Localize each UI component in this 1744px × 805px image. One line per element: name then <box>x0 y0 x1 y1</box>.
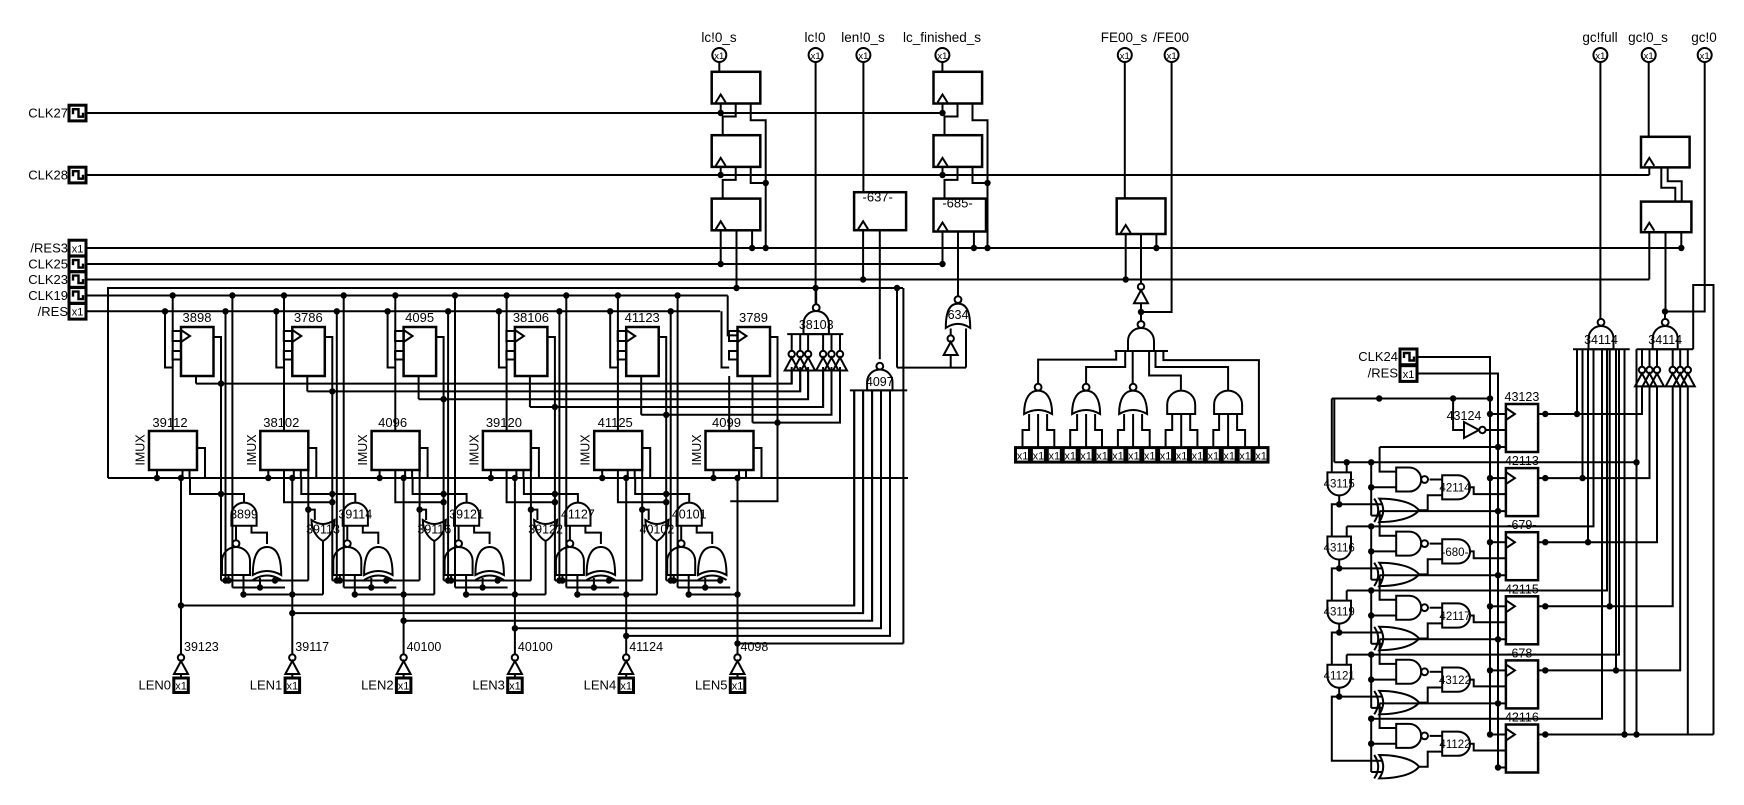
svg-text:3789: 3789 <box>739 310 768 325</box>
svg-text:40100: 40100 <box>518 640 553 654</box>
svg-text:39120: 39120 <box>486 415 522 430</box>
svg-text:4098: 4098 <box>741 640 769 654</box>
svg-text:x1: x1 <box>509 681 521 693</box>
svg-text:x1: x1 <box>1017 450 1029 462</box>
svg-text:43122: 43122 <box>1439 675 1471 687</box>
svg-text:41123: 41123 <box>625 310 660 325</box>
svg-text:gc!0: gc!0 <box>1691 30 1717 45</box>
svg-text:CLK28: CLK28 <box>28 168 68 183</box>
svg-text:/FE00: /FE00 <box>1153 30 1189 45</box>
svg-text:39123: 39123 <box>184 640 219 654</box>
svg-text:x1: x1 <box>1033 450 1045 462</box>
svg-text:IMUX: IMUX <box>134 434 148 466</box>
svg-text:gc!full: gc!full <box>1582 30 1617 45</box>
svg-text:3786: 3786 <box>294 310 323 325</box>
svg-text:41121: 41121 <box>1324 671 1355 683</box>
svg-text:40100: 40100 <box>407 640 442 654</box>
svg-text:38102: 38102 <box>263 415 299 430</box>
svg-text:x1: x1 <box>1167 51 1177 62</box>
svg-text:IMUX: IMUX <box>467 434 481 466</box>
svg-text:LEN3: LEN3 <box>472 678 505 693</box>
svg-text:39122: 39122 <box>528 523 563 537</box>
svg-text:/RES: /RES <box>38 304 69 319</box>
svg-text:34114: 34114 <box>1584 333 1618 347</box>
svg-text:634: 634 <box>948 308 969 322</box>
svg-text:39112: 39112 <box>152 415 187 430</box>
svg-text:-685-: -685- <box>942 196 972 211</box>
svg-text:LEN2: LEN2 <box>361 678 394 693</box>
svg-text:IMUX: IMUX <box>245 434 259 466</box>
svg-text:43116: 43116 <box>1324 543 1355 555</box>
svg-text:x1: x1 <box>72 243 84 255</box>
svg-text:42114: 42114 <box>1439 483 1471 495</box>
svg-text:CLK27: CLK27 <box>28 106 68 121</box>
svg-text:x1: x1 <box>1176 450 1188 462</box>
svg-text:IMUX: IMUX <box>690 434 704 466</box>
svg-text:39114: 39114 <box>338 508 372 522</box>
svg-text:-678-: -678- <box>1507 646 1536 660</box>
svg-text:x1: x1 <box>286 681 298 693</box>
svg-text:x1: x1 <box>620 681 632 693</box>
svg-text:42117: 42117 <box>1439 611 1470 623</box>
svg-text:43115: 43115 <box>1324 478 1355 490</box>
svg-text:x1: x1 <box>175 681 187 693</box>
svg-text:3899: 3899 <box>230 508 258 522</box>
svg-text:CLK19: CLK19 <box>28 288 68 303</box>
svg-text:x1: x1 <box>714 51 724 62</box>
svg-text:38106: 38106 <box>513 310 549 325</box>
svg-text:IMUX: IMUX <box>579 434 593 466</box>
svg-text:40101: 40101 <box>672 508 707 522</box>
svg-text:lc!0_s: lc!0_s <box>701 30 737 45</box>
svg-text:x1: x1 <box>1048 450 1060 462</box>
svg-text:3898: 3898 <box>183 310 212 325</box>
svg-text:4099: 4099 <box>712 415 741 430</box>
svg-text:x1: x1 <box>1207 450 1219 462</box>
svg-text:x1: x1 <box>1064 450 1076 462</box>
svg-text:41124: 41124 <box>629 640 663 654</box>
svg-text:x1: x1 <box>1403 369 1415 381</box>
svg-text:42115: 42115 <box>1505 582 1539 596</box>
svg-text:x1: x1 <box>1144 450 1156 462</box>
svg-text:x1: x1 <box>1128 450 1140 462</box>
svg-text:IMUX: IMUX <box>356 434 370 466</box>
svg-text:41122: 41122 <box>1439 739 1470 751</box>
svg-text:41125: 41125 <box>598 415 633 430</box>
svg-text:42116: 42116 <box>1505 711 1539 725</box>
svg-text:x1: x1 <box>1080 450 1092 462</box>
svg-text:x1: x1 <box>1644 51 1654 62</box>
svg-text:4096: 4096 <box>378 415 407 430</box>
svg-text:/RES3: /RES3 <box>30 241 68 256</box>
svg-text:LEN1: LEN1 <box>250 678 283 693</box>
svg-text:len!0_s: len!0_s <box>841 30 885 45</box>
svg-text:41127: 41127 <box>561 508 595 522</box>
svg-text:LEN4: LEN4 <box>584 678 617 693</box>
svg-text:39121: 39121 <box>449 508 484 522</box>
svg-text:x1: x1 <box>1595 51 1605 62</box>
svg-text:lc_finished_s: lc_finished_s <box>903 30 981 45</box>
svg-text:x1: x1 <box>858 51 868 62</box>
svg-text:38103: 38103 <box>799 318 834 332</box>
svg-text:39116: 39116 <box>417 523 451 537</box>
svg-text:39113: 39113 <box>306 523 340 537</box>
svg-text:CLK24: CLK24 <box>1358 349 1398 364</box>
svg-text:gc!0_s: gc!0_s <box>1628 30 1668 45</box>
svg-text:CLK25: CLK25 <box>28 257 68 272</box>
svg-text:39117: 39117 <box>295 640 329 654</box>
svg-text:-679-: -679- <box>1507 518 1536 532</box>
svg-text:x1: x1 <box>1120 51 1130 62</box>
svg-text:x1: x1 <box>811 51 821 62</box>
svg-text:FE00_s: FE00_s <box>1101 30 1148 45</box>
svg-text:4095: 4095 <box>405 310 434 325</box>
svg-text:x1: x1 <box>732 681 744 693</box>
svg-text:CLK23: CLK23 <box>28 272 68 287</box>
svg-text:x1: x1 <box>937 51 947 62</box>
svg-text:x1: x1 <box>398 681 410 693</box>
svg-text:x1: x1 <box>1223 450 1235 462</box>
svg-text:34114: 34114 <box>1648 333 1682 347</box>
svg-text:x1: x1 <box>1112 450 1124 462</box>
svg-text:x1: x1 <box>1700 51 1710 62</box>
svg-text:x1: x1 <box>1096 450 1108 462</box>
svg-text:/RES: /RES <box>1368 366 1399 381</box>
svg-text:-680-: -680- <box>1442 547 1469 559</box>
svg-text:40102: 40102 <box>640 523 675 537</box>
svg-text:x1: x1 <box>1239 450 1251 462</box>
svg-text:x1: x1 <box>72 307 84 319</box>
svg-text:4097: 4097 <box>866 375 894 389</box>
svg-text:-637-: -637- <box>863 190 893 205</box>
svg-text:LEN5: LEN5 <box>695 678 728 693</box>
svg-text:lc!0: lc!0 <box>804 30 825 45</box>
svg-text:42113: 42113 <box>1505 454 1539 468</box>
svg-text:x1: x1 <box>1255 450 1267 462</box>
svg-text:43119: 43119 <box>1324 607 1355 619</box>
svg-text:x1: x1 <box>1192 450 1204 462</box>
svg-text:x1: x1 <box>1160 450 1172 462</box>
svg-text:LEN0: LEN0 <box>138 678 171 693</box>
svg-text:43123: 43123 <box>1505 390 1540 404</box>
